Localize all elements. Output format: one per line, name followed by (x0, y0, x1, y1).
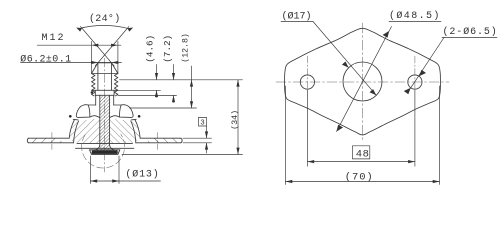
svg-text:(Ø48.5): (Ø48.5) (389, 10, 441, 22)
svg-text:(34): (34) (230, 110, 240, 130)
svg-text:48: 48 (356, 148, 370, 160)
svg-text:(7.2): (7.2) (162, 35, 173, 63)
svg-text:(Ø17): (Ø17) (282, 10, 312, 22)
svg-text:(4.6): (4.6) (145, 35, 156, 63)
svg-text:(2-Ø6.5): (2-Ø6.5) (443, 26, 498, 38)
svg-text:(12.8): (12.8) (180, 33, 190, 62)
svg-text:M12: M12 (42, 33, 66, 44)
svg-text:(24°): (24°) (89, 13, 121, 25)
svg-text:3: 3 (200, 120, 205, 128)
svg-text:(Ø13): (Ø13) (125, 168, 159, 180)
svg-text:Ø6.2±0.1: Ø6.2±0.1 (20, 53, 71, 65)
svg-text:(70): (70) (345, 171, 374, 183)
